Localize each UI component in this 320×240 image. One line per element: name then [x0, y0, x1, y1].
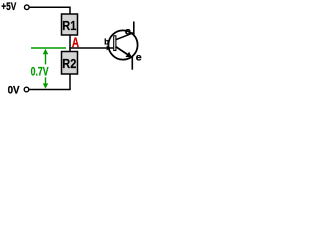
resistor R2 — [62, 52, 78, 75]
green reference bar at node A level — [31, 47, 66, 49]
wire top vertical to R1 — [69, 7, 71, 15]
terminal +5V — [25, 5, 30, 10]
green arrow upper segment — [45, 53, 47, 65]
wire R1 to R2 — [69, 35, 71, 52]
svg-text:c: c — [125, 26, 131, 38]
svg-text:R1: R1 — [62, 18, 76, 33]
collector diagonal — [116, 33, 134, 40]
svg-text:+5V: +5V — [1, 1, 17, 13]
svg-text:e: e — [136, 52, 142, 64]
svg-text:R2: R2 — [62, 56, 76, 71]
wire R2 to bottom — [69, 74, 71, 90]
node A wire to base — [69, 47, 113, 49]
svg-text:0.7V: 0.7V — [31, 64, 49, 78]
green arrow lower segment — [45, 77, 47, 84]
terminal 0V — [24, 87, 29, 92]
resistor R1 — [62, 14, 78, 35]
emitter diagonal — [116, 47, 131, 57]
svg-text:A: A — [72, 34, 79, 50]
transistor base bar — [114, 36, 116, 51]
svg-text:b: b — [104, 38, 109, 47]
emitter arrowhead — [126, 52, 132, 58]
base current arrowhead — [107, 46, 111, 51]
green down arrowhead — [43, 83, 48, 88]
emitter lead — [131, 57, 133, 70]
green up arrowhead — [43, 49, 48, 54]
svg-text:0V: 0V — [8, 85, 21, 97]
transistor Q1 circle — [108, 30, 137, 59]
collector lead — [133, 22, 135, 35]
wire bottom horizontal — [29, 89, 71, 91]
wire top horizontal — [29, 6, 70, 8]
